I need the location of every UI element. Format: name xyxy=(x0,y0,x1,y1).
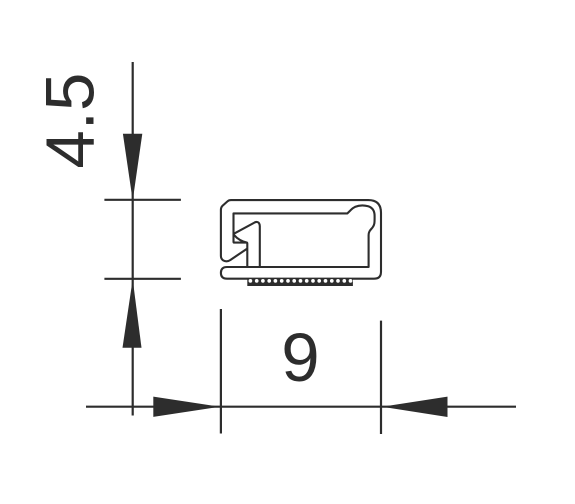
right extension line xyxy=(380,321,382,434)
svg-text:4.5: 4.5 xyxy=(32,73,109,169)
arrow left xyxy=(382,397,448,417)
arrow up xyxy=(123,279,142,348)
adhesive tape strip xyxy=(247,279,353,286)
tape dots xyxy=(249,279,353,283)
snap flap xyxy=(234,222,260,267)
arrow down xyxy=(123,134,142,201)
left extension line xyxy=(220,309,222,434)
flap lower curve xyxy=(234,235,248,243)
svg-text:9: 9 xyxy=(281,319,319,396)
vertical dimension line 4.5 xyxy=(132,62,134,416)
bottom tick xyxy=(104,278,180,280)
arrow right xyxy=(153,397,220,417)
top tick xyxy=(104,199,180,201)
horizontal dimension line 9 xyxy=(86,406,516,408)
profile outer and inner contour xyxy=(221,200,381,279)
